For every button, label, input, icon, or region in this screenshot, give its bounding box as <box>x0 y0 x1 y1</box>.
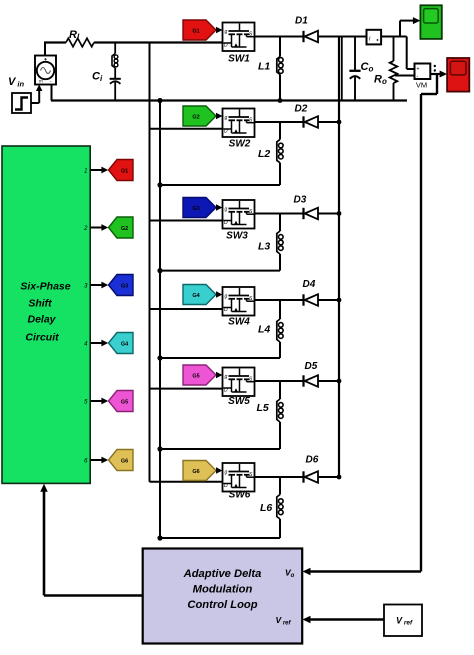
svg-text:SW1: SW1 <box>228 54 250 65</box>
wire gate arrow G5 to SW5 <box>216 372 223 379</box>
node D4 junction on output bus <box>337 298 342 303</box>
MOSFET SW1 <box>223 23 255 65</box>
from tag G5 gate <box>183 365 216 385</box>
from tag G1 gate <box>183 20 216 40</box>
svg-text:m: m <box>39 79 43 84</box>
wire Vin plus terminal to top rail <box>44 43 46 57</box>
svg-text:g: g <box>225 470 228 476</box>
svg-text:G3: G3 <box>192 206 199 212</box>
svg-text:2: 2 <box>83 226 88 232</box>
svg-text:G5: G5 <box>121 399 128 405</box>
wire SW6 source to D6 <box>255 476 304 478</box>
wire bus A to SW4 drain row <box>150 308 223 310</box>
wire gate arrow G4 to SW4 <box>216 291 223 298</box>
voltage measurement VM <box>415 64 436 90</box>
wire gate arrow G3 to SW3 <box>216 204 223 211</box>
wire L5 bottom to bus B <box>160 448 280 450</box>
diode D3 <box>294 195 319 220</box>
wire L3 bottom to bus B <box>160 270 280 272</box>
svg-text:D: D <box>224 388 228 394</box>
current sensor <box>367 30 382 45</box>
svg-text:+: + <box>417 67 420 73</box>
wire Vref to control loop <box>303 616 385 624</box>
wire gate arrow G6 to SW6 <box>216 467 223 474</box>
node D2 junction on output bus <box>337 120 342 125</box>
svg-text:g: g <box>225 294 228 300</box>
subsystem Six-Phase Shift Delay Circuit <box>2 146 90 483</box>
wire VM to red scope <box>430 71 447 78</box>
svg-text:L2: L2 <box>258 148 270 160</box>
inductor L5 <box>257 381 284 449</box>
node D3 junction on output bus <box>337 211 342 216</box>
from tag G4 gate <box>183 285 216 305</box>
svg-text:1: 1 <box>84 169 87 175</box>
wire SW4 source to D4 <box>255 299 304 301</box>
diode D6 <box>304 455 319 483</box>
resistor Rl <box>66 29 94 47</box>
wire gate arrow G1 to SW1 <box>216 27 223 34</box>
svg-text:SW5: SW5 <box>228 396 250 407</box>
svg-text:SW4: SW4 <box>228 317 250 328</box>
svg-text:D: D <box>224 220 228 226</box>
svg-text:g: g <box>225 29 228 35</box>
svg-text:Adaptive Delta: Adaptive Delta <box>183 568 262 580</box>
capacitor Ci (series LC branch) <box>92 43 121 101</box>
svg-text:G1: G1 <box>192 28 199 34</box>
wire output to ground link <box>341 37 343 101</box>
svg-text:Six-Phase: Six-Phase <box>20 281 70 293</box>
node L1 to return rail <box>278 98 283 103</box>
svg-text:G2: G2 <box>192 114 199 120</box>
inductor L3 <box>258 214 283 271</box>
wire SW5 source to D5 <box>255 380 304 382</box>
wire VM minus input <box>395 75 415 77</box>
wire port 1 arrow to goto tag G1 <box>90 167 108 174</box>
wire D6 to output bus <box>318 476 339 478</box>
svg-text:SW3: SW3 <box>226 231 248 242</box>
svg-text:D4: D4 <box>303 279 316 290</box>
svg-text:D: D <box>224 43 228 49</box>
scope red (output voltage) <box>447 58 469 92</box>
from tag G2 gate <box>183 106 216 126</box>
diode D1 <box>295 16 318 43</box>
goto tag G4 <box>109 333 134 354</box>
constant block V ref <box>384 605 422 637</box>
svg-text:D5: D5 <box>305 361 318 372</box>
step input source <box>12 93 31 113</box>
node L6 return junction <box>157 535 162 540</box>
controlled voltage source Vin <box>35 56 56 85</box>
svg-text:L4: L4 <box>258 324 270 336</box>
MOSFET SW4 <box>223 287 255 328</box>
svg-text:G5: G5 <box>192 373 199 379</box>
wire bus A to SW5 drain row <box>150 388 223 390</box>
wire SW2 source to D2 <box>255 121 304 123</box>
wire bus A to SW2 drain row <box>150 128 223 130</box>
inductor L2 <box>258 122 283 185</box>
svg-text:D: D <box>224 483 228 489</box>
svg-text:D: D <box>224 307 228 313</box>
svg-text:SW6: SW6 <box>229 490 251 501</box>
bus A input voltage <box>149 43 151 482</box>
wire D2 to output bus <box>318 121 339 123</box>
scope green (input current) <box>420 5 441 39</box>
svg-text:G1: G1 <box>121 168 128 174</box>
wire port 6 arrow to goto tag G6 <box>90 457 108 464</box>
wire control loop output to six-phase input <box>40 484 142 596</box>
svg-text:G6: G6 <box>192 469 199 475</box>
from tag G6 gate <box>183 461 216 481</box>
svg-text:G2: G2 <box>121 226 128 232</box>
output bus vertical <box>338 37 340 478</box>
inductor L4 <box>258 300 283 358</box>
capacitor Co <box>349 37 373 101</box>
svg-text:g: g <box>225 207 228 213</box>
diode D4 <box>303 279 319 306</box>
wire step to source input <box>31 85 42 104</box>
wire port 5 arrow to goto tag G5 <box>90 398 108 405</box>
diode D5 <box>304 361 319 387</box>
svg-text:Control Loop: Control Loop <box>187 599 257 611</box>
wire VM plus input <box>407 37 415 70</box>
inductor L6 <box>260 477 283 538</box>
wire Vo feedback to control loop <box>303 74 438 575</box>
svg-text:G4: G4 <box>192 293 200 299</box>
svg-text:G4: G4 <box>121 341 129 347</box>
wire bus A to SW6 drain row <box>150 481 223 483</box>
svg-text:g: g <box>225 115 228 121</box>
node L2 return junction <box>157 182 162 187</box>
node L3 return junction <box>157 268 162 273</box>
wire Vin minus terminal to return rail <box>51 85 53 101</box>
svg-text:L6: L6 <box>260 502 272 514</box>
wire SW3 source to D3 <box>255 213 304 215</box>
svg-text:G3: G3 <box>121 283 128 289</box>
svg-text:g: g <box>225 374 228 380</box>
svg-text:Circuit: Circuit <box>25 332 59 344</box>
wire D1 to output bus <box>318 36 367 38</box>
goto tag G3 <box>109 275 134 296</box>
diode D2 <box>295 104 319 128</box>
wire top rail <box>44 41 223 43</box>
svg-text:Delay: Delay <box>27 314 56 326</box>
svg-text:L3: L3 <box>258 241 270 253</box>
MOSFET SW6 <box>223 463 255 501</box>
wire port 4 arrow to goto tag G4 <box>90 340 108 347</box>
goto tag G1 <box>109 160 134 181</box>
svg-text:Modulation: Modulation <box>193 584 253 596</box>
wire port 3 arrow to goto tag G3 <box>90 282 108 289</box>
wire D5 to output bus <box>318 380 339 382</box>
svg-text:L5: L5 <box>257 402 269 414</box>
wire sensor to green scope <box>381 17 420 36</box>
wire port 2 arrow to goto tag G2 <box>90 224 108 231</box>
wire D4 to output bus <box>318 299 339 301</box>
svg-text:D2: D2 <box>295 104 308 115</box>
subsystem Adaptive Delta Modulation Control Loop <box>143 549 303 644</box>
MOSFET SW5 <box>223 368 255 408</box>
svg-text:D3: D3 <box>294 195 307 206</box>
wire return rail <box>51 99 407 101</box>
wire SW1 source to D1 <box>255 36 304 38</box>
goto tag G6 <box>109 450 134 471</box>
svg-text:D: D <box>224 129 228 135</box>
goto tag G2 <box>109 217 134 238</box>
from tag G3 gate <box>183 198 216 218</box>
wire D3 to output bus <box>318 213 339 215</box>
wire L2 bottom to bus B <box>160 184 280 186</box>
wire gate arrow G2 to SW2 <box>216 113 223 120</box>
node D6 junction on output bus <box>337 475 342 480</box>
inductor L1 <box>258 37 283 101</box>
svg-text:Shift: Shift <box>28 298 52 310</box>
resistor Ro <box>374 37 397 101</box>
node bus B to return rail <box>157 98 162 103</box>
MOSFET SW3 <box>223 200 255 242</box>
MOSFET SW2 <box>223 109 255 150</box>
svg-text:G6: G6 <box>121 458 128 464</box>
svg-text:VM: VM <box>416 81 427 90</box>
svg-text:D1: D1 <box>295 16 308 27</box>
goto tag G5 <box>109 391 134 412</box>
wire bus A to SW3 drain row <box>150 220 223 222</box>
wire L6 bottom to bus B <box>160 537 280 539</box>
bus B inductor return <box>159 101 161 539</box>
node D5 junction on output bus <box>337 379 342 384</box>
svg-text:SW2: SW2 <box>229 139 251 150</box>
node L5 return junction <box>157 446 162 451</box>
svg-text:D6: D6 <box>306 455 319 466</box>
node L4 return junction <box>157 355 162 360</box>
svg-text:L1: L1 <box>258 61 270 73</box>
wire L4 bottom to bus B <box>160 357 280 359</box>
